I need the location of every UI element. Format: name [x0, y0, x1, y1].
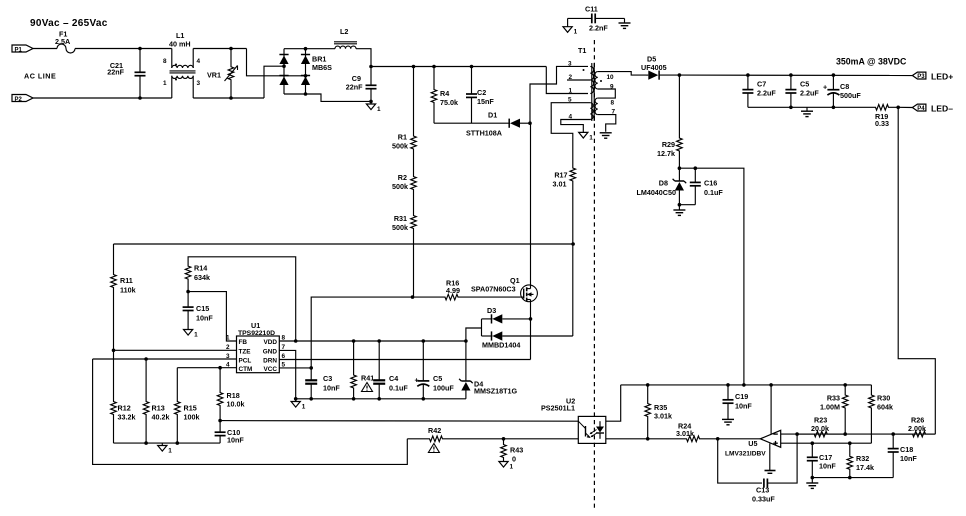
wire opto collector up	[606, 385, 621, 421]
inductor L1 top winding	[172, 65, 193, 68]
svg-text:100uF: 100uF	[433, 384, 454, 393]
svg-text:C11: C11	[585, 5, 598, 14]
wire opamp V- ground	[769, 444, 771, 471]
wire L1 pin3 lead	[192, 76, 194, 98]
svg-text:1.00M: 1.00M	[820, 403, 840, 412]
T1 pin4 path to ground	[561, 120, 591, 133]
wire VDD row	[279, 340, 466, 342]
diode D3 bottom	[482, 335, 493, 337]
capacitor C5 output	[790, 75, 792, 90]
wire DRN row	[279, 359, 530, 361]
wire AC neutral to bridge	[264, 66, 284, 98]
svg-text:1: 1	[302, 404, 306, 411]
node R19 right	[896, 106, 900, 110]
T1 pin5 path to R17	[551, 103, 590, 160]
node C5out top	[789, 73, 793, 77]
capacitor C4	[378, 341, 380, 380]
warning triangle R41	[362, 383, 373, 392]
node C17 top	[811, 441, 815, 445]
svg-text:1: 1	[168, 448, 172, 455]
svg-text:10nF: 10nF	[900, 454, 917, 463]
node R32 bottom	[848, 476, 852, 480]
wire PCL loop	[93, 359, 408, 464]
wire C10 node to opto	[220, 420, 578, 423]
svg-text:10nF: 10nF	[196, 314, 213, 323]
svg-text:1: 1	[377, 106, 381, 113]
svg-text:1: 1	[569, 88, 573, 95]
svg-text:10.0k: 10.0k	[227, 400, 245, 409]
ground 1 U1 GND	[295, 399, 297, 402]
node drain clamp	[528, 121, 532, 125]
zener D8	[678, 168, 680, 181]
node C21 top	[138, 47, 142, 51]
node C2 top	[470, 65, 474, 69]
svg-text:1: 1	[226, 335, 230, 342]
earth ground at C11	[619, 22, 631, 24]
capacitor C5 electrolytic	[422, 341, 424, 381]
resistor R18	[217, 368, 223, 421]
earth ground T1 pin7	[600, 132, 612, 134]
svg-text:C5: C5	[800, 80, 809, 89]
svg-text:FB: FB	[239, 339, 248, 346]
svg-text:2.2uF: 2.2uF	[800, 89, 819, 98]
warning triangle R42	[428, 444, 439, 453]
svg-text:VDD: VDD	[264, 339, 278, 346]
svg-text:R32: R32	[856, 454, 869, 463]
zener D4	[465, 341, 467, 381]
svg-text:TZE: TZE	[239, 349, 252, 356]
wire L1 to VR1 bottom	[193, 97, 264, 99]
wire CTM row	[177, 367, 236, 369]
node R14 bottom	[186, 290, 190, 294]
node opamp output	[716, 437, 720, 441]
T1 primary upper winding	[590, 66, 593, 93]
node VCC C3	[309, 366, 313, 370]
resistor R31	[411, 203, 417, 244]
node C8 top	[832, 73, 836, 77]
svg-text:R4: R4	[440, 89, 449, 98]
resistor R43	[501, 439, 507, 462]
svg-text:3: 3	[197, 80, 201, 87]
svg-text:TPS92210D: TPS92210D	[238, 330, 275, 337]
wire bypass ground rail	[296, 398, 466, 400]
node D5 output	[678, 73, 682, 77]
svg-text:10nF: 10nF	[227, 436, 244, 445]
bridge BR1 diode top-left	[279, 54, 288, 56]
svg-text:0.33uF: 0.33uF	[752, 495, 775, 504]
svg-text:R12: R12	[118, 404, 131, 413]
wire clamp bottom	[434, 122, 510, 124]
capacitor C7	[747, 75, 749, 90]
svg-text:L2: L2	[340, 27, 348, 36]
capacitor C19	[727, 385, 729, 400]
resistor R13	[143, 359, 149, 443]
U2 LED arrows	[591, 430, 597, 434]
svg-text:100k: 100k	[184, 413, 200, 422]
svg-text:MB6S: MB6S	[312, 63, 332, 72]
U2 phototransistor	[585, 426, 587, 437]
capacitor C17	[811, 443, 813, 457]
bridge BR1 right branch	[305, 49, 307, 94]
svg-text:R17: R17	[554, 171, 567, 180]
wire minus row	[797, 433, 935, 435]
svg-text:P4: P4	[917, 106, 925, 112]
svg-text:R42: R42	[428, 426, 441, 435]
wire C11 right to ground	[624, 18, 626, 22]
wire C13 to minus	[767, 434, 797, 483]
svg-text:UF4005: UF4005	[641, 63, 667, 72]
earth ground sense	[811, 478, 813, 483]
svg-text:22nF: 22nF	[346, 83, 363, 92]
svg-text:C16: C16	[704, 179, 717, 188]
svg-text:C2: C2	[477, 88, 486, 97]
svg-text:R2: R2	[398, 173, 407, 182]
node R35 top	[646, 383, 650, 387]
resistor R35	[645, 385, 651, 439]
resistor R2	[411, 163, 417, 203]
op-amp U5	[760, 430, 780, 447]
svg-text:U1: U1	[251, 321, 260, 330]
wire plus row	[812, 442, 871, 444]
svg-text:R14: R14	[194, 264, 207, 273]
wire DC+ rail	[371, 66, 546, 68]
svg-text:500uF: 500uF	[840, 91, 861, 100]
svg-text:0.33: 0.33	[875, 119, 889, 128]
wire opamp minus input	[781, 433, 797, 435]
wire C16 bottom	[679, 204, 695, 206]
wire C13 loop	[718, 439, 762, 483]
svg-text:C15: C15	[196, 304, 209, 313]
wire GND pin down	[279, 350, 295, 398]
node R13 bottom	[144, 441, 148, 445]
wire L1 pin1 lead	[171, 76, 173, 98]
capacitor C21	[139, 49, 141, 73]
svg-text:33.2k: 33.2k	[118, 413, 136, 422]
svg-text:P1: P1	[15, 47, 23, 53]
bridge BR1 left branch	[283, 49, 285, 94]
isolation barrier dashed line	[593, 40, 595, 508]
svg-text:C18: C18	[900, 445, 913, 454]
capacitor C11	[568, 17, 592, 19]
inductor L1 core	[170, 70, 196, 72]
inductor L2 core	[334, 41, 357, 43]
connector P3	[912, 72, 926, 79]
node gate startup	[411, 295, 415, 299]
wire VCC row	[279, 367, 311, 369]
wire ref to opamp rail	[679, 168, 744, 385]
svg-text:+: +	[823, 83, 827, 92]
resistor R16	[413, 294, 521, 300]
node bridge top right	[304, 47, 308, 51]
node C5out bottom	[789, 106, 793, 110]
svg-text:15nF: 15nF	[477, 97, 494, 106]
resistor R12	[111, 350, 117, 443]
svg-text:C5: C5	[433, 374, 442, 383]
transformer T1 core	[591, 63, 593, 121]
svg-text:R41: R41	[361, 374, 374, 383]
node Q1 source D3	[529, 317, 533, 321]
svg-text:CTM: CTM	[239, 366, 253, 373]
svg-text:1: 1	[574, 29, 578, 36]
ground 1 at C11	[563, 27, 572, 33]
wire output rail	[679, 74, 912, 76]
wire Q1 source	[530, 301, 532, 359]
diode D5	[646, 74, 648, 76]
svg-text:R31: R31	[394, 214, 407, 223]
svg-text:2.2uF: 2.2uF	[757, 89, 776, 98]
svg-text:C3: C3	[323, 374, 332, 383]
wire D3 to VDD	[466, 328, 482, 341]
T1 pin9-8 jumper	[598, 89, 616, 98]
svg-text:4.99: 4.99	[446, 286, 460, 295]
svg-text:17.4k: 17.4k	[856, 463, 874, 472]
resistor R11	[111, 271, 117, 350]
wire R14 top	[188, 257, 296, 341]
svg-text:R15: R15	[184, 404, 197, 413]
wire DC+ to T1 pin1	[546, 67, 588, 94]
wire L1 to VR1 top	[193, 48, 246, 50]
varistor VR1	[228, 49, 234, 99]
bridge BR1 diode bottom-left	[279, 75, 288, 77]
wire R15 lead	[176, 368, 178, 396]
node C5 top	[422, 339, 426, 343]
node R43 top	[502, 437, 506, 441]
node VR1 bottom	[229, 96, 233, 100]
wire TZE row	[114, 349, 237, 351]
svg-text:3: 3	[568, 60, 572, 67]
IC U1 box	[237, 336, 280, 373]
svg-text:AC LINE: AC LINE	[24, 72, 56, 81]
resistor R29	[677, 75, 683, 168]
capacitor C13	[763, 479, 765, 488]
node GND rail left	[294, 397, 298, 401]
svg-text:1: 1	[194, 332, 198, 339]
resistor R24	[681, 436, 718, 442]
svg-text:500k: 500k	[392, 223, 408, 232]
node C16 top	[694, 166, 698, 170]
T1 secondary upper winding	[595, 72, 598, 89]
svg-text:7: 7	[612, 109, 616, 116]
node R13 top	[144, 357, 148, 361]
wire F1 to L1	[75, 48, 172, 50]
ground 1 below C9	[370, 101, 372, 104]
wire D3 cathode bus	[481, 319, 483, 336]
wire PCL row	[93, 358, 237, 360]
node bridge bottom right	[304, 92, 308, 96]
earth ground output	[806, 107, 808, 110]
node ref rail	[742, 383, 746, 387]
svg-text:P3: P3	[917, 74, 925, 80]
diode D3 top	[482, 318, 493, 320]
node bridge left mid	[282, 64, 286, 68]
node R18 top	[218, 366, 222, 370]
capacitor C16	[694, 168, 696, 182]
resistor R19	[875, 105, 899, 111]
wire R31 to gate node	[413, 244, 415, 297]
svg-text:VR1: VR1	[207, 71, 221, 80]
svg-text:0.1uF: 0.1uF	[704, 188, 723, 197]
node R18 bottom	[218, 419, 222, 423]
svg-text:0: 0	[512, 455, 516, 464]
svg-text:1: 1	[510, 464, 514, 471]
wire C11 left to ground	[567, 18, 569, 26]
transistor Q1	[521, 285, 538, 302]
svg-text:MMBD1404: MMBD1404	[482, 341, 520, 350]
U2 LED	[599, 421, 601, 426]
svg-text:3.01k: 3.01k	[676, 429, 694, 438]
svg-text:0.1uF: 0.1uF	[389, 384, 408, 393]
node R1 top	[412, 65, 416, 69]
node C4 top	[377, 339, 381, 343]
node C9 bottom	[369, 100, 373, 104]
svg-text:5: 5	[568, 97, 572, 104]
svg-text:C8: C8	[840, 82, 849, 91]
node DC+ at C9	[369, 65, 373, 69]
svg-text:C19: C19	[735, 392, 748, 401]
svg-text:PCL: PCL	[239, 358, 252, 365]
node R32 top	[848, 441, 852, 445]
resistor R26	[893, 431, 935, 437]
bridge BR1 diode bottom-right	[301, 75, 310, 77]
svg-text:604k: 604k	[877, 403, 893, 412]
wire VCC to gate line	[311, 297, 412, 368]
svg-text:10: 10	[607, 74, 615, 81]
wire AC hot to bridge	[247, 49, 306, 76]
svg-text:22nF: 22nF	[107, 68, 124, 77]
node C17 bottom	[811, 476, 815, 480]
wire P2 to L1	[33, 97, 172, 99]
diode D1	[508, 119, 510, 128]
node C21 bottom	[138, 96, 142, 100]
node C19 top	[726, 383, 730, 387]
svg-text:C13: C13	[756, 486, 769, 495]
svg-text:9: 9	[610, 84, 614, 91]
svg-text:R30: R30	[877, 394, 890, 403]
svg-text:D8: D8	[659, 179, 668, 188]
wire L2 to C9 node	[356, 49, 371, 67]
svg-text:8: 8	[611, 100, 615, 107]
svg-text:634k: 634k	[194, 273, 210, 282]
wire to P4	[898, 106, 912, 108]
T1 pin10 path	[598, 72, 646, 76]
svg-text:D1: D1	[488, 111, 497, 120]
connector P2	[12, 95, 33, 102]
wire clamp node to T1 pin3	[530, 66, 588, 123]
capacitor C3	[310, 368, 312, 380]
ground 1 C15	[184, 330, 193, 336]
wire opto emitter row	[606, 438, 681, 440]
T1 pin7 path to ground	[598, 115, 616, 132]
svg-text:2.00k: 2.00k	[908, 424, 926, 433]
node C18 top	[891, 432, 895, 436]
svg-text:40 mH: 40 mH	[169, 40, 191, 49]
wire bridge top rail	[284, 48, 335, 50]
resistor R33	[842, 385, 848, 434]
node aux sense	[571, 242, 575, 246]
svg-text:110k: 110k	[120, 286, 136, 295]
connector P4	[912, 104, 926, 111]
node R33 top	[843, 383, 847, 387]
svg-text:3.01: 3.01	[553, 180, 567, 189]
svg-text:R43: R43	[510, 446, 523, 455]
capacitor C8 electrolytic	[832, 75, 834, 90]
inductor L1 bottom winding	[172, 76, 193, 79]
wire opamp rail	[621, 384, 872, 386]
T1 pin2 stub	[567, 79, 590, 81]
optocoupler U2 box	[578, 416, 606, 443]
node C3 bottom	[309, 397, 313, 401]
earth ground D8	[678, 205, 680, 210]
resistor R17	[570, 160, 576, 244]
node bridge right mid	[304, 74, 308, 78]
svg-text:T1: T1	[578, 46, 586, 55]
wire sense down	[898, 107, 935, 434]
node C8 bottom	[832, 106, 836, 110]
svg-text:10nF: 10nF	[819, 462, 836, 471]
ground 1 left rail	[161, 443, 163, 445]
svg-text:GND: GND	[263, 349, 278, 356]
resistor R1	[411, 67, 417, 164]
wire drain node down to Q1	[530, 123, 532, 285]
svg-text:1: 1	[163, 80, 167, 87]
node R41 top	[352, 339, 356, 343]
capacitor C10	[219, 421, 221, 433]
resistor R15	[175, 396, 181, 443]
svg-text:U5: U5	[748, 439, 757, 448]
T1 secondary lower winding	[595, 98, 598, 115]
T1 primary lower winding	[590, 103, 593, 120]
svg-text:R1: R1	[398, 133, 407, 142]
node opamp V+	[769, 383, 773, 387]
node minus input	[795, 432, 799, 436]
svg-text:12.7k: 12.7k	[657, 149, 675, 158]
node VDD R14	[294, 339, 298, 343]
svg-text:STTH108A: STTH108A	[466, 129, 502, 138]
svg-text:10nF: 10nF	[323, 384, 340, 393]
node R33 bottom	[843, 432, 847, 436]
T1 primary polarity dot	[583, 69, 585, 71]
wire R14 to FB	[188, 292, 236, 341]
svg-text:LM4040C50: LM4040C50	[636, 188, 676, 197]
svg-text:MMSZ18T1G: MMSZ18T1G	[474, 387, 518, 396]
ground 1 R43	[499, 462, 508, 468]
fuse F1	[57, 44, 75, 53]
capacitor C18	[892, 434, 894, 449]
svg-text:R33: R33	[827, 394, 840, 403]
svg-text:1: 1	[589, 134, 593, 141]
svg-text:LED–: LED–	[931, 104, 953, 114]
svg-text:LED+: LED+	[931, 72, 953, 82]
svg-text:10nF: 10nF	[735, 402, 752, 411]
svg-text:C4: C4	[389, 374, 398, 383]
node D8 anode	[678, 203, 682, 207]
node ref top	[678, 166, 682, 170]
wire opamp V+ lead	[770, 385, 772, 434]
wire bridge bottom	[284, 94, 371, 101]
wire L1 pin8 lead	[171, 49, 173, 69]
connector P1	[12, 45, 33, 52]
wire aux sense corner	[113, 244, 115, 271]
resistor R30	[869, 385, 875, 443]
inductor L2 winding	[335, 46, 356, 49]
svg-text:350mA @ 38VDC: 350mA @ 38VDC	[836, 57, 907, 67]
node C7 top	[746, 73, 750, 77]
wire output bottom rail	[748, 106, 875, 108]
svg-text:4: 4	[569, 114, 573, 121]
svg-text:D3: D3	[487, 306, 496, 315]
node C5 bottom	[422, 397, 426, 401]
wire P1 to F1	[33, 48, 57, 50]
